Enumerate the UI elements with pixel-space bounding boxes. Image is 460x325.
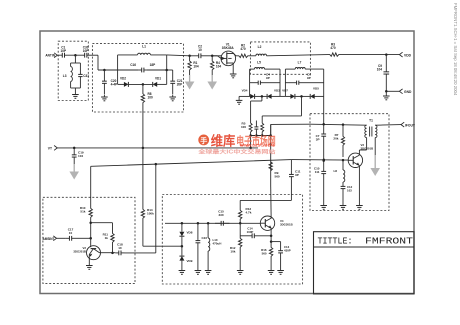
resistor R6 (261, 120, 264, 136)
capacitor C22 (196, 223, 208, 268)
resistor R13 (239, 200, 252, 224)
capacitor C21 (170, 70, 182, 95)
wire varactor feed line (142, 112, 144, 205)
capacitor C13 (271, 242, 291, 262)
svg-text:51k: 51k (80, 209, 85, 213)
svg-text:330: 330 (218, 213, 223, 217)
RF loop bottom right segment (157, 83, 167, 85)
wire V2 output to C18 (100, 252, 116, 254)
wire collector branch (91, 222, 113, 224)
wire C11 bottom to R13 (240, 181, 291, 201)
svg-text:C23: C23 (202, 236, 208, 240)
svg-text:FMFRONT1.SCH-1 = Sat Sep 18 08: FMFRONT1.SCH-1 = Sat Sep 18 08:48:20 200… (453, 3, 458, 96)
inductor L2 on rail (251, 45, 267, 56)
wire corner down to R10 (90, 166, 92, 203)
RF loop mid line with capacitor C16 (118, 63, 167, 72)
resistor R12 (230, 223, 242, 262)
resistor R11 (103, 223, 115, 253)
ground under L10 (205, 269, 212, 275)
svg-text:维库: 维库 (211, 132, 236, 148)
svg-text:全球最大IC中文交易网站: 全球最大IC中文交易网站 (197, 147, 276, 155)
capacitor C6 in right cell (285, 73, 323, 85)
capacitor C9 (377, 55, 389, 92)
dashed box antenna input stage (58, 41, 88, 100)
ground under C22 (195, 269, 202, 275)
wire V3 collector to T1 (359, 138, 366, 156)
wire AMSINT to C17 (57, 237, 66, 239)
tank loop bottom (71, 88, 81, 93)
transistor V2 (73, 238, 100, 263)
terminal VT (48, 146, 58, 151)
varactor diode VD9 (179, 256, 192, 268)
svg-text:T1: T1 (369, 119, 373, 123)
svg-text:18P: 18P (150, 63, 156, 67)
resistor R14 (141, 205, 154, 224)
svg-text:VD3: VD3 (274, 89, 280, 93)
svg-text:3P: 3P (295, 173, 299, 177)
wire V4 collector riser (270, 186, 272, 219)
wire right cell junction drop (262, 96, 301, 119)
svg-text:L7: L7 (298, 61, 302, 65)
RF loop top left segment (118, 54, 138, 56)
svg-text:430P: 430P (284, 248, 291, 252)
svg-text:L8: L8 (333, 169, 337, 173)
inductor L10 (208, 223, 221, 268)
terminal IFOUT (401, 122, 415, 127)
svg-text:10: 10 (69, 231, 73, 235)
ground under V1 (230, 72, 237, 78)
RF loop left side (117, 55, 119, 85)
svg-text:3SK45A: 3SK45A (222, 46, 235, 50)
title text (318, 237, 414, 247)
svg-text:GND: GND (404, 90, 412, 94)
varactor diode VD5 (310, 87, 319, 99)
resistor R7 (333, 125, 344, 157)
svg-text:C31: C31 (83, 74, 89, 78)
svg-text:L3: L3 (63, 74, 67, 78)
svg-text:WWW.DZSC.COM: WWW.DZSC.COM (240, 144, 274, 148)
wire loop right to C21 (165, 69, 172, 72)
resistor R2 (236, 44, 251, 58)
inductor L8 (333, 160, 344, 182)
inductor L7 (295, 61, 305, 69)
capacitor C4 in left cell (250, 73, 280, 85)
ground under V3 emitter (356, 204, 363, 210)
tuned cell left loop (250, 69, 280, 96)
svg-text:104: 104 (216, 65, 221, 69)
svg-text:10P: 10P (83, 49, 89, 53)
svg-text:470uH: 470uH (213, 241, 222, 245)
wire divider tap junction dots (342, 159, 345, 162)
capacitor C1 (60, 46, 66, 58)
wire C10 to ground (323, 180, 325, 204)
wire C12 to ground (342, 193, 344, 204)
ground under V2 (86, 264, 93, 270)
dashed box local oscillator (162, 195, 302, 285)
capacitor C2 (190, 45, 210, 59)
resistor R1 (188, 55, 199, 75)
svg-text:100: 100 (148, 96, 153, 100)
capacitor C18 (115, 243, 124, 256)
svg-text:470: 470 (330, 46, 335, 50)
ground under C9 (383, 90, 390, 100)
ground under C20 (101, 95, 108, 101)
capacitor C31 (78, 63, 89, 88)
dashed box coil assembly (250, 42, 310, 74)
wire rail into box2 down-jog (98, 55, 118, 70)
ground under R12 (237, 269, 244, 275)
wire R14 to box5 varactors (143, 223, 182, 246)
capacitor C20 (102, 69, 117, 95)
wire V2 output riser (155, 163, 158, 253)
left cell bottom with varactor VD4 (242, 89, 255, 99)
transformer T1 (365, 119, 377, 138)
svg-text:VDD: VDD (404, 53, 412, 57)
ground under C21 (169, 95, 176, 101)
wire R10 to base junction (89, 221, 92, 238)
dashed box RF tuning stage (92, 44, 183, 112)
watermark slogan text (197, 147, 276, 155)
wire feedback network bottoms (251, 134, 271, 137)
wire R5 bottom to VT line (249, 134, 252, 149)
svg-text:3DG201B: 3DG201B (280, 222, 293, 226)
capacitor C19 on VT (72, 148, 84, 164)
svg-text:TITTLE:: TITTLE: (318, 237, 353, 247)
terminal ANTIN (45, 53, 57, 58)
terminal GND (399, 89, 412, 94)
svg-text:20k: 20k (333, 136, 338, 140)
svg-text:VD5: VD5 (313, 87, 319, 91)
wire VD5 to cell corner (315, 95, 324, 97)
inductor L5 (255, 61, 265, 69)
ground under tank (72, 93, 79, 99)
svg-text:560: 560 (275, 174, 280, 178)
resistor R9 (269, 147, 280, 186)
svg-text:VD9: VD9 (187, 259, 193, 263)
wire VD2 to center junction (129, 83, 153, 86)
svg-text:10P: 10P (61, 49, 67, 53)
wire R12 to ground (239, 262, 241, 269)
wire VD3 to cell corner (271, 95, 285, 97)
wire V1 source to ground (232, 63, 234, 72)
title block box (314, 232, 415, 294)
svg-text:10: 10 (118, 246, 122, 250)
capacitor C5 (254, 121, 258, 136)
svg-text:手: 手 (200, 136, 207, 145)
wire rail out of box2 (167, 54, 190, 57)
svg-text:VD2: VD2 (120, 77, 126, 81)
svg-text:9P: 9P (266, 76, 270, 80)
wire C13 to ground (280, 262, 282, 269)
watermark logo circle (198, 135, 209, 146)
wire R9 top corner to box6 (271, 124, 310, 147)
svg-text:VD1: VD1 (155, 77, 161, 81)
wire V3 emitter to ground (358, 166, 360, 204)
resistor R4 (211, 56, 222, 75)
svg-text:VT: VT (48, 147, 52, 151)
wire C18 out of box4 (125, 252, 156, 254)
transistor V1 MOSFET (212, 42, 236, 65)
ground under C10 (320, 204, 327, 210)
svg-text:AMSINT: AMSINT (42, 237, 54, 241)
wire C9 to GND terminal (386, 90, 399, 92)
svg-text:10: 10 (198, 48, 202, 52)
capacitor C14 (240, 227, 271, 239)
gray ground arrow under R4 (207, 75, 217, 90)
svg-text:470: 470 (240, 47, 245, 51)
oscillator rail (165, 222, 240, 225)
capacitor C11 (289, 160, 301, 181)
wire R3 to VDD terminal (341, 53, 399, 56)
capacitor C12 (341, 182, 353, 193)
svg-text:100k: 100k (147, 211, 154, 215)
svg-text:111: 111 (315, 170, 320, 174)
wire VT rail (57, 147, 258, 150)
wire T1 secondary top to IFOUT (375, 124, 401, 127)
wire right cell to box6 divider (323, 96, 325, 124)
svg-text:L1: L1 (142, 45, 146, 49)
svg-text:4-4P: 4-4P (111, 83, 118, 87)
ground under C13 (277, 269, 284, 275)
wire C11 top to V3 base (291, 158, 348, 161)
gray ground arrow under C19 (69, 164, 79, 180)
watermark main text (211, 132, 276, 148)
wire C17 to V2 base (76, 237, 92, 240)
wire ANTIN to C1 (57, 54, 60, 56)
ground under VD9 (179, 269, 186, 275)
svg-text:FMFRONT: FMFRONT (365, 237, 413, 247)
capacitor C10 (314, 159, 326, 180)
terminal VDD (399, 52, 411, 57)
svg-text:3P: 3P (316, 137, 320, 141)
dashed box AM input stage (43, 197, 135, 283)
ground wire left of cell (239, 96, 250, 98)
resistor R16 (261, 242, 273, 262)
gray ground arrow under T1 (370, 155, 380, 176)
varactor diode VD8 (179, 223, 192, 236)
right cell bottom with varactor VD7 (282, 89, 295, 99)
resistor R5 (241, 120, 252, 136)
wire C1 to C30 with junction (67, 54, 84, 57)
wire rail L2 to R3 (267, 55, 328, 56)
svg-text:L5: L5 (257, 61, 261, 65)
wire left cell junction drop (251, 96, 262, 119)
ground symbol left cell (236, 98, 243, 104)
capacitor C30 (83, 46, 89, 58)
plot filename margin text (453, 3, 458, 96)
RF loop top right segment (151, 54, 167, 56)
capacitor C7 (316, 124, 327, 146)
gray ground arrow under R1 (185, 75, 195, 90)
schematic border frame (40, 31, 414, 294)
svg-text:1k: 1k (105, 236, 109, 240)
wire R16 to ground (270, 262, 272, 269)
terminal AMSINT (42, 236, 56, 241)
wire C2 to V1 gate (210, 55, 222, 58)
svg-text:3DG201B: 3DG201B (73, 249, 86, 253)
varactor diode VD2 (120, 77, 128, 87)
svg-text:100P: 100P (247, 230, 254, 234)
resistor R10 (80, 203, 92, 223)
inductor L3 (63, 63, 73, 88)
wire varactor midpoint (181, 237, 184, 256)
svg-text:C16: C16 (130, 63, 136, 67)
capacitor C17 (66, 228, 76, 241)
wire oscillator node corner (269, 124, 272, 136)
varactor diode VD1 (153, 77, 162, 87)
svg-text:560: 560 (262, 251, 267, 255)
wire C7 to C10 (323, 146, 325, 165)
wire V4 emitter (270, 229, 273, 243)
svg-text:IFOUT: IFOUT (405, 123, 415, 127)
RF loop right side (166, 55, 168, 85)
svg-text:L2: L2 (258, 45, 262, 49)
ground under R16 (268, 269, 275, 275)
svg-text:9P: 9P (307, 76, 311, 80)
RF loop bottom left segment (118, 83, 124, 85)
transistor V4 (260, 216, 292, 230)
wire junction down to tank (74, 55, 76, 63)
wire R11 to output (111, 252, 114, 255)
wire C30 to box2 (89, 54, 99, 56)
svg-text:104: 104 (78, 154, 83, 158)
svg-text:100: 100 (241, 125, 246, 129)
wire T1 secondary bottom (374, 138, 376, 155)
dashed box IF output stage (310, 114, 389, 211)
tank loop top (71, 62, 81, 64)
wire V2 collector feed line (91, 160, 292, 167)
svg-text:VD7: VD7 (282, 89, 288, 93)
inductor L1 (138, 45, 151, 55)
svg-text:10k: 10k (230, 249, 235, 253)
resistor R8 (141, 84, 153, 112)
svg-text:4.7k: 4.7k (246, 210, 252, 214)
ground under C12 (340, 204, 347, 210)
wire VD4 to junction (255, 95, 267, 98)
svg-text:VD4: VD4 (242, 89, 248, 93)
transistor V3 (348, 143, 373, 168)
svg-text:104: 104 (193, 65, 198, 69)
varactor diode VD3 (267, 89, 280, 99)
svg-text:VD8: VD8 (187, 231, 193, 235)
oscillator injection wire (310, 123, 367, 126)
resistor R3 (328, 43, 342, 57)
tuned cell right loop (285, 69, 323, 96)
svg-text:20P: 20P (177, 83, 183, 87)
svg-text:104: 104 (377, 68, 382, 72)
wire VD7 to junction (295, 95, 310, 98)
wire rail to V4 base (240, 222, 260, 224)
capacitor C15 series (215, 210, 230, 226)
svg-text:103: 103 (347, 188, 352, 192)
